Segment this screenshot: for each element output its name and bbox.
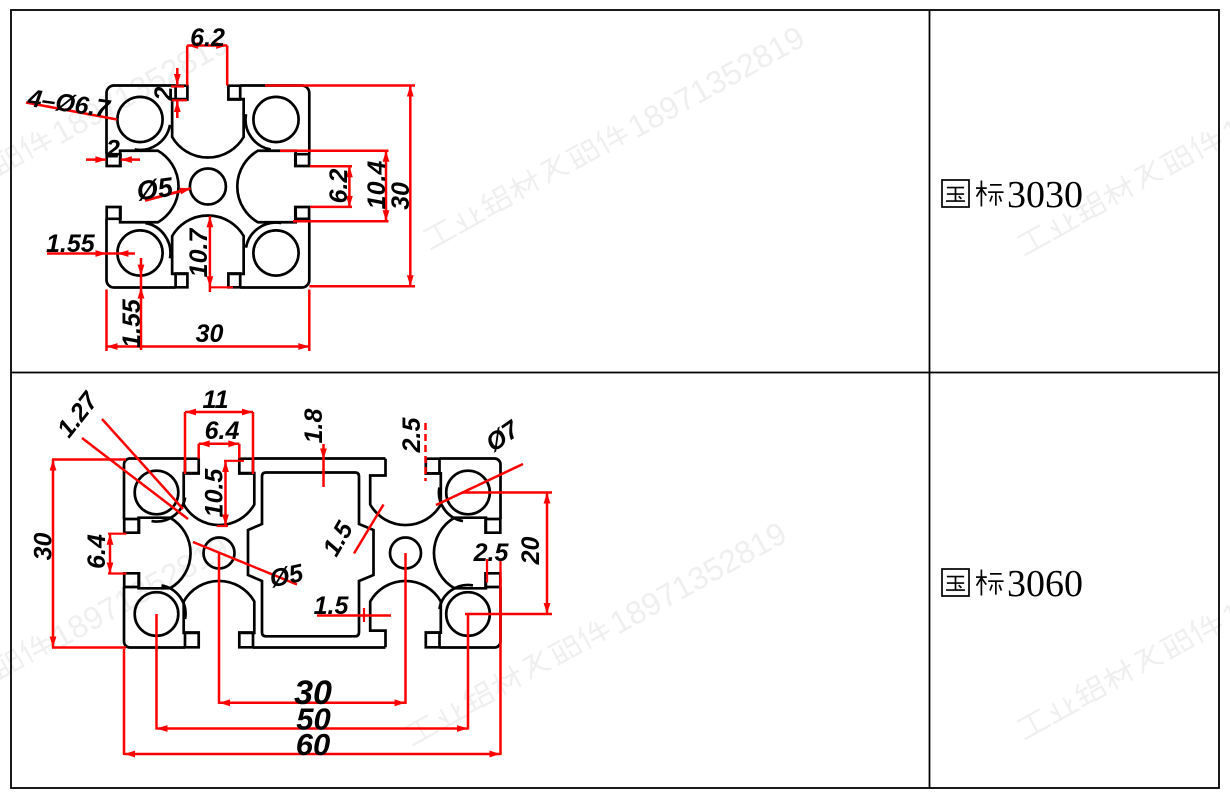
3060 corner hole bottom-left — [135, 585, 186, 635]
3030 corner hole top-left — [117, 97, 170, 150]
3060 profile outer contour — [124, 459, 501, 648]
3030 corner hole top-right — [246, 97, 299, 150]
dim 6.2 top slot opening — [187, 42, 227, 85]
3030 left T-slot — [107, 151, 179, 223]
leaders 1.27 wall thickness — [82, 419, 188, 519]
3030 corner hole bottom-left — [117, 223, 170, 276]
3030 top T-slot — [172, 86, 244, 158]
3030 profile outer contour — [107, 86, 310, 288]
svg-text:11: 11 — [203, 386, 229, 414]
3030 bottom T-slot — [172, 215, 244, 287]
dim 20 corner hole spacing — [462, 493, 552, 615]
dim 30 left height — [50, 460, 126, 648]
svg-text:30: 30 — [196, 320, 224, 348]
svg-text:20: 20 — [517, 537, 545, 566]
dim 10.7 bottom slot depth — [207, 216, 234, 292]
watermark row1 left — [0, 25, 234, 264]
svg-text:1.8: 1.8 — [300, 409, 328, 444]
dim 1.5 lower wall — [317, 608, 391, 622]
svg-text:60: 60 — [296, 727, 330, 762]
3030 centre hole — [190, 169, 226, 205]
svg-text:2.5: 2.5 — [398, 417, 426, 454]
svg-text:3030: 3030 — [1007, 174, 1083, 216]
svg-text:1.5: 1.5 — [314, 592, 350, 620]
svg-text:6.2: 6.2 — [325, 169, 353, 204]
3060 top-right T-slot (merges with chamber) — [370, 459, 441, 525]
dim 6.4 top slot opening — [199, 440, 240, 458]
dim 1.8 top wall — [320, 444, 327, 487]
svg-text:10.5: 10.5 — [201, 468, 229, 518]
3030 corner hole bottom-right — [246, 223, 299, 276]
cell label GB3030 — [942, 174, 1083, 216]
dim 50 corner hole spacing — [157, 614, 469, 732]
dim 10.5 top slot depth — [217, 461, 244, 527]
3060 top-left T-slot — [184, 459, 255, 525]
cell label GB3060 — [942, 563, 1083, 605]
3060 corner hole bottom-right — [439, 585, 489, 636]
svg-text:2: 2 — [105, 136, 120, 164]
dim 2.5 right slot lip — [487, 559, 501, 583]
dim 30 centre hole spacing — [219, 553, 406, 706]
3060 centre hole right — [390, 538, 421, 569]
watermark row1 middle — [419, 19, 811, 258]
leader d5 centre hole — [145, 188, 191, 201]
svg-text:1.55: 1.55 — [46, 230, 96, 258]
3060 central cavity chamber — [248, 473, 374, 637]
svg-text:6.4: 6.4 — [205, 417, 240, 445]
leader 4-d6.7 corner holes — [26, 103, 117, 120]
3060 right T-slot — [434, 518, 500, 589]
svg-text:6.2: 6.2 — [190, 24, 225, 52]
3060 corner hole top-right — [439, 471, 490, 521]
dim 30 bottom width — [107, 290, 310, 352]
dim 11 top slot — [185, 409, 253, 474]
watermark row3 left — [0, 529, 234, 768]
dim 6.4 left slot opening — [107, 534, 127, 574]
svg-text:10.7: 10.7 — [185, 228, 213, 278]
svg-text:3060: 3060 — [1007, 563, 1083, 605]
svg-text:2.5: 2.5 — [473, 539, 510, 567]
dim 6.2 right slot opening — [310, 166, 353, 207]
dim 30 right height — [265, 86, 415, 287]
3060 bottom-left T-slot — [184, 581, 255, 647]
3060 centre hole left — [204, 538, 235, 569]
dim 2.5 top-right lip — [424, 423, 427, 481]
3060 corner hole top-left — [135, 471, 185, 522]
watermark row1 right — [1013, 25, 1230, 264]
watermark row3 right — [1013, 509, 1230, 748]
dim 2 left slot lip — [86, 156, 140, 163]
leader d5 centre holes — [193, 542, 297, 585]
leader 1.5 upper wall — [354, 505, 384, 554]
dim 1.55 horizontal — [47, 250, 135, 257]
3060 left T-slot — [124, 518, 190, 589]
dim 2 top slot lip — [171, 68, 187, 118]
dim 60 overall width — [124, 578, 501, 757]
svg-text:1.55: 1.55 — [118, 298, 146, 348]
svg-text:30: 30 — [387, 182, 415, 210]
watermark row3 middle — [401, 515, 793, 754]
dim 10.4 right slot cavity — [280, 151, 389, 221]
3060 bottom-right T-slot (merges with chamber) — [370, 581, 441, 647]
3030 right T-slot — [237, 151, 309, 223]
dim 1.55 vertical — [138, 258, 145, 350]
leader d7 corner holes — [436, 464, 523, 505]
svg-text:6.4: 6.4 — [83, 534, 111, 569]
svg-text:30: 30 — [30, 533, 58, 561]
svg-text:Ø5: Ø5 — [135, 172, 176, 207]
svg-text:2: 2 — [150, 86, 178, 101]
